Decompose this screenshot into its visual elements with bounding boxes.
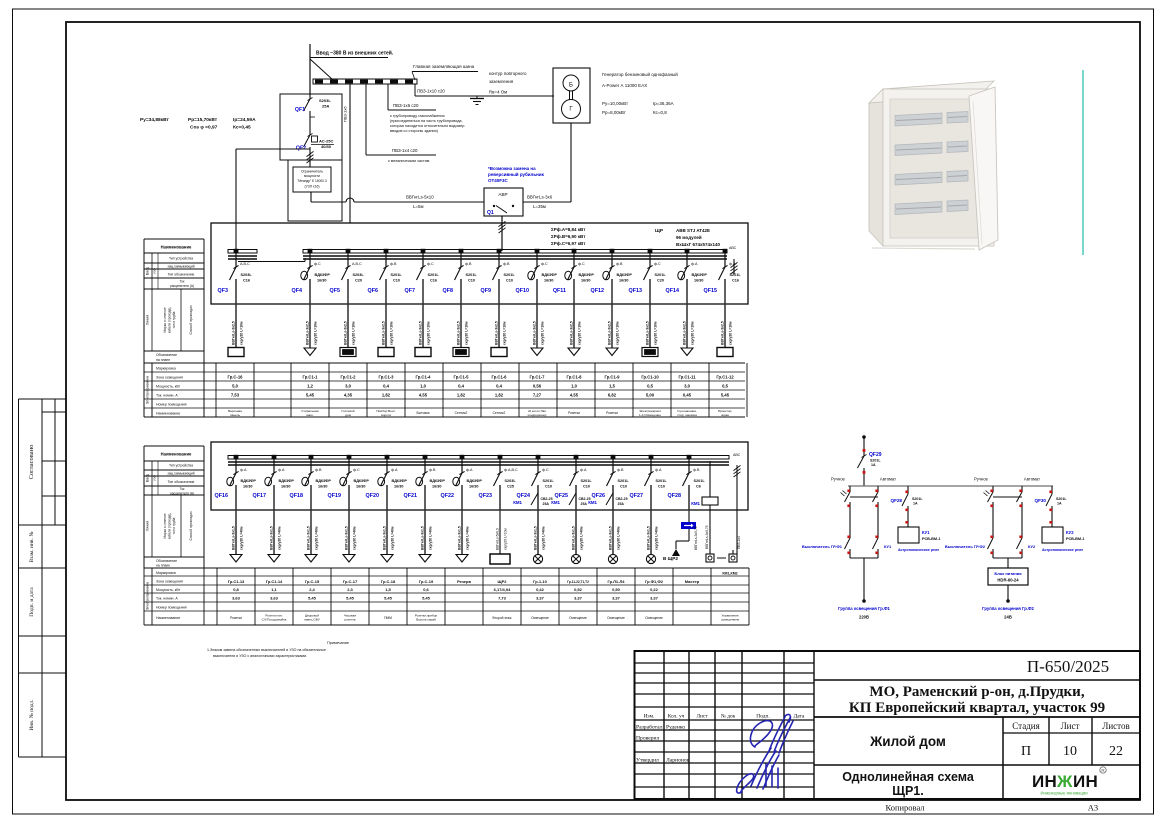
- svg-text:ф.А: ф.А: [278, 468, 285, 472]
- svg-text:ЩР1.: ЩР1.: [892, 784, 924, 798]
- svg-text:Выключатель ГР.Ф1: Выключатель ГР.Ф1: [802, 544, 843, 549]
- svg-text:Копировал: Копировал: [885, 803, 925, 813]
- breaker QF19: [328, 455, 370, 510]
- svg-text:кабеля (провода),: кабеля (провода),: [168, 307, 172, 334]
- svg-text:С16: С16: [732, 279, 739, 283]
- svg-text:QF25: QF25: [555, 493, 568, 499]
- svg-text:96 модулей: 96 модулей: [676, 234, 702, 240]
- svg-text:дом: дом: [345, 413, 351, 417]
- svg-text:Гр.С1-6: Гр.С1-6: [491, 375, 507, 380]
- relay branch QF30 КУ2: [1035, 486, 1085, 552]
- svg-text:Способ прокладки: Способ прокладки: [189, 511, 193, 540]
- svg-text:16/30: 16/30: [318, 485, 328, 489]
- svg-text:скр/у20 L=40м: скр/у20 L=40м: [391, 526, 395, 550]
- svg-text:Марка и сечение: Марка и сечение: [163, 307, 167, 332]
- wire: outgoing cable of QF6: [382, 304, 394, 348]
- svg-text:СВ2-25: СВ2-25: [616, 497, 628, 501]
- svg-text:Разработал: Разработал: [636, 724, 663, 731]
- svg-text:QF13: QF13: [629, 288, 642, 294]
- svg-text:5,45: 5,45: [306, 393, 315, 398]
- svg-text:скр/у20 L=10м: скр/у20 L=10м: [504, 528, 508, 550]
- svg-text:Освещение: Освещение: [569, 616, 587, 620]
- svg-text:КМ1: КМ1: [513, 500, 522, 505]
- svg-text:Группа освещения Гр.Ф1: Группа освещения Гр.Ф1: [838, 606, 890, 611]
- svg-text:Rв=4 Ом: Rв=4 Ом: [489, 90, 507, 95]
- svg-text:ВВГнгLs-3х2,5: ВВГнгLs-3х2,5: [419, 321, 423, 345]
- svg-text:ВВГнгLs-3х2,5: ВВГнгLs-3х2,5: [382, 321, 386, 345]
- svg-text:Лист: Лист: [1061, 721, 1080, 731]
- svg-text:Ввод ~380 В из внешних сетей.: Ввод ~380 В из внешних сетей.: [316, 50, 394, 57]
- wire: PE tap to mechanical parts: [365, 84, 367, 155]
- svg-text:3,0: 3,0: [345, 384, 351, 389]
- svg-text:QF8: QF8: [443, 288, 453, 294]
- svg-text:ф.В: ф.В: [503, 262, 510, 266]
- svg-text:к механическим частям: к механическим частям: [388, 159, 430, 163]
- svg-text:Мастер: Мастер: [685, 579, 700, 584]
- svg-text:QF22: QF22: [441, 493, 454, 499]
- svg-text:Гр.С1-2: Гр.С1-2: [340, 375, 356, 380]
- wire: outgoing cable of QF5: [344, 304, 356, 348]
- svg-text:5,00: 5,00: [646, 393, 655, 398]
- svg-text:Септик2: Септик2: [493, 411, 506, 415]
- wire: outgoing cable of QF21: [421, 510, 433, 554]
- panel ЩР1 box (upper): [211, 223, 748, 304]
- svg-text:С16: С16: [430, 279, 437, 283]
- svg-text:1,1: 1,1: [271, 587, 277, 592]
- svg-text:Мощность, кВт: Мощность, кВт: [156, 385, 181, 389]
- svg-text:Утвердил: Утвердил: [636, 758, 659, 764]
- svg-text:QF3: QF3: [218, 288, 228, 294]
- control bus: [848, 485, 1053, 487]
- svg-text:Маркировка: Маркировка: [156, 571, 176, 575]
- svg-text:навес,СФУ: навес,СФУ: [304, 618, 320, 622]
- manual/auto switch group: [945, 477, 1040, 559]
- table 2 grid: [144, 567, 749, 569]
- svg-text:МО, Раменский р-он, д.Прудки,: МО, Раменский р-он, д.Прудки,: [869, 684, 1084, 700]
- svg-text:ВВГнгLs-5х6,0: ВВГнгLs-5х6,0: [496, 528, 500, 550]
- breaker QF15: [704, 249, 742, 304]
- svg-text:ВВГнгLs-5х10: ВВГнгLs-5х10: [406, 195, 434, 200]
- svg-text:ВВГнгLs-3х1,5: ВВГнгLs-3х1,5: [345, 526, 349, 550]
- panel ЩР1 box (lower): [211, 442, 748, 510]
- svg-text:Тип обозначение: Тип обозначение: [168, 273, 195, 277]
- svg-text:HDR-60-24: HDR-60-24: [997, 578, 1019, 583]
- wire: outgoing cable of QF18: [307, 510, 319, 554]
- svg-text:ИН: ИН: [1073, 772, 1098, 791]
- wire: from bus end to terminal: [736, 472, 738, 554]
- svg-text:С10: С10: [620, 485, 627, 489]
- generator G (petrol): [553, 68, 590, 123]
- enclosure around power limiter: [288, 160, 342, 221]
- svg-text:Автомат: Автомат: [1024, 477, 1040, 482]
- svg-text:С10: С10: [468, 279, 475, 283]
- svg-text:16/30: 16/30: [317, 279, 327, 283]
- plan symbol of QF18: [305, 555, 317, 563]
- svg-text:Кол. уч: Кол. уч: [668, 714, 685, 720]
- svg-text:Гр.С-18: Гр.С-18: [381, 579, 396, 584]
- svg-text:S203L: S203L: [505, 479, 517, 483]
- wire: outgoing cable of QF11: [570, 304, 582, 348]
- svg-text:Гр.С-17: Гр.С-17: [343, 579, 358, 584]
- svg-text:заземления: заземления: [489, 79, 514, 84]
- svg-text:S203L: S203L: [241, 273, 253, 277]
- svg-text:QF4: QF4: [292, 288, 302, 294]
- svg-text:ВВГнгLs-3х2,5: ВВГнгLs-3х2,5: [533, 321, 537, 345]
- svg-text:Ворота сарай: Ворота сарай: [416, 618, 436, 622]
- svg-text:ВВГнгLs-3х2,5: ВВГнгLs-3х2,5: [721, 321, 725, 345]
- svg-text:Бытовка: Бытовка: [417, 411, 430, 415]
- svg-text:ВВГнгLs-3х2,5: ВВГнгLs-3х2,5: [570, 321, 574, 345]
- svg-text:QF15: QF15: [704, 288, 717, 294]
- svg-text:3,37: 3,37: [574, 596, 583, 601]
- svg-text:S201L: S201L: [912, 497, 923, 501]
- svg-text:ВД63ФР: ВД63ФР: [692, 273, 708, 277]
- svg-text:QF16: QF16: [215, 493, 228, 499]
- wire: outgoing cable of QF12: [608, 304, 620, 348]
- svg-text:S201L: S201L: [581, 479, 593, 483]
- wire: outgoing cable of QF15: [721, 304, 733, 348]
- svg-text:Руденко: Руденко: [666, 725, 685, 731]
- svg-text:QF28: QF28: [668, 493, 681, 499]
- svg-text:А3: А3: [1088, 803, 1098, 813]
- svg-text:КМ1: КМ1: [551, 500, 560, 505]
- svg-text:5,45: 5,45: [346, 596, 355, 601]
- svg-text:ВВГнгLs-3х1,5: ВВГнгLs-3х1,5: [534, 526, 538, 550]
- svg-text:Зона освещения: Зона освещения: [156, 376, 183, 380]
- svg-text:мощности: мощности: [304, 174, 320, 178]
- RCD QF2: [304, 135, 311, 147]
- svg-text:стир. машина: стир. машина: [677, 413, 697, 417]
- svg-text:кондиционер: кондиционер: [528, 413, 547, 417]
- svg-text:выключатели и УЗО с аналогичны: выключатели и УЗО с аналогичными характе…: [213, 654, 307, 658]
- table 1 grid: [144, 362, 745, 364]
- svg-text:QF12: QF12: [591, 288, 604, 294]
- svg-text:ф.С: ф.С: [314, 262, 321, 266]
- svg-text:ΣРф.С=6,97 кВт: ΣРф.С=6,97 кВт: [551, 240, 586, 246]
- svg-text:АВР: АВР: [498, 192, 507, 197]
- breaker QF22: [441, 455, 483, 510]
- svg-text:Гр.С1-12: Гр.С1-12: [716, 375, 734, 380]
- plan symbol of QF6: [378, 348, 394, 357]
- svg-text:Электроприемник: Электроприемник: [146, 375, 150, 404]
- breaker QF29: [863, 452, 865, 456]
- plan symbol of QF8: [453, 348, 469, 357]
- enclosure around QF1 QF2: [280, 94, 342, 160]
- svg-text:ВВГнгLs-3х1,5: ВВГнгLs-3х1,5: [647, 526, 651, 550]
- svg-text:УЗО: УЗО: [153, 474, 157, 481]
- wire: outgoing cable of QF9: [495, 304, 507, 348]
- svg-text:Гр.С1-1: Гр.С1-1: [302, 375, 318, 380]
- svg-text:КУ1: КУ1: [884, 544, 892, 549]
- svg-text:ВВГнгLs-3х6: ВВГнгLs-3х6: [527, 195, 553, 200]
- svg-text:ф.А: ф.А: [466, 468, 473, 472]
- plan symbol of QF24: [533, 554, 542, 563]
- svg-text:скр/у20 L=10м: скр/у20 L=10м: [240, 321, 244, 345]
- svg-text:QF14: QF14: [666, 288, 679, 294]
- svg-text:скр/у20 L=40м: скр/у20 L=40м: [240, 526, 244, 550]
- svg-text:0,5: 0,5: [722, 384, 728, 389]
- svg-text:ф.В: ф.В: [616, 262, 623, 266]
- svg-text:скр/у20 L=40м: скр/у20 L=40м: [580, 526, 584, 550]
- svg-text:Подп. и дата: Подп. и дата: [29, 587, 35, 617]
- breaker QF3: [218, 249, 253, 304]
- svg-text:0,42: 0,42: [536, 587, 545, 592]
- svg-text:Ру=34,88кВт: Ру=34,88кВт: [140, 117, 169, 123]
- svg-text:РСВ-ВМ-1: РСВ-ВМ-1: [1066, 537, 1084, 541]
- svg-text:ф.В: ф.В: [429, 468, 436, 472]
- svg-text:ОТ40F3С: ОТ40F3С: [488, 178, 509, 183]
- svg-text:освещением: освещением: [721, 618, 739, 622]
- svg-text:Листов: Листов: [1102, 721, 1129, 731]
- svg-text:Гр.С1-13: Гр.С1-13: [228, 579, 245, 584]
- svg-text:5,45: 5,45: [308, 596, 317, 601]
- svg-text:0,4: 0,4: [458, 384, 464, 389]
- svg-text:ПВЗ-1х6 с20: ПВЗ-1х6 с20: [393, 103, 419, 108]
- title block right part: [814, 679, 1140, 681]
- svg-text:Гр.С1-7: Гр.С1-7: [529, 375, 545, 380]
- svg-text:Тип обозначение: Тип обозначение: [168, 480, 195, 484]
- svg-text:0,4: 0,4: [496, 384, 502, 389]
- svg-text:(присоединяться на часть трубо: (присоединяться на часть трубопровода,: [390, 119, 463, 123]
- svg-text:4,35: 4,35: [344, 393, 353, 398]
- plan symbol of QF16: [230, 555, 242, 563]
- svg-text:ПВЗ-1х4: ПВЗ-1х4: [737, 536, 741, 549]
- control circuit feed node: [862, 435, 866, 439]
- svg-text:ВВГнгLs-3х2,5: ВВГнгLs-3х2,5: [646, 321, 650, 345]
- wire: outgoing cable of QF7: [419, 304, 431, 348]
- svg-text:0,52: 0,52: [574, 587, 583, 592]
- svg-text:С/У,Посудомойка: С/У,Посудомойка: [262, 618, 287, 622]
- svg-text:Обозначение: Обозначение: [156, 353, 177, 357]
- plan symbol of QF7: [415, 348, 431, 357]
- wire: outgoing cable of QF14: [683, 304, 695, 348]
- svg-text:0,56: 0,56: [533, 384, 542, 389]
- svg-text:С20: С20: [355, 279, 362, 283]
- svg-text:1,5: 1,5: [385, 587, 391, 592]
- svg-text:ф.А: ф.А: [691, 262, 698, 266]
- svg-text:Номер помещения: Номер помещения: [156, 403, 187, 407]
- svg-text:Гр.С1-11: Гр.С1-11: [678, 375, 696, 380]
- svg-text:скр/у20 L=10м: скр/у20 L=10м: [691, 321, 695, 345]
- svg-text:скр/у20 L=40м: скр/у20 L=40м: [278, 526, 282, 550]
- svg-text:3,37: 3,37: [536, 596, 545, 601]
- svg-text:АВС: АВС: [733, 453, 741, 457]
- manual/auto switch group: [802, 477, 896, 559]
- plan symbol of QF12: [606, 348, 618, 356]
- svg-text:скр/у20 L=40м: скр/у20 L=40м: [542, 526, 546, 550]
- svg-text:QF23: QF23: [479, 493, 492, 499]
- svg-text:Марка и сечение: Марка и сечение: [163, 513, 167, 538]
- sidebar cell grid: [19, 398, 67, 400]
- svg-text:КУ1: КУ1: [922, 530, 930, 535]
- svg-text:ф.В: ф.В: [315, 468, 322, 472]
- svg-text:ф.В: ф.В: [617, 468, 624, 472]
- svg-text:С16: С16: [243, 279, 250, 283]
- svg-text:Гр.С1-10: Гр.С1-10: [641, 375, 659, 380]
- svg-text:тип и труба: тип и труба: [172, 311, 176, 328]
- svg-text:ф.А: ф.А: [391, 468, 398, 472]
- svg-text:Тип устройства: Тип устройства: [169, 257, 193, 261]
- svg-text:0,6: 0,6: [423, 587, 429, 592]
- breaker QF4: [292, 249, 331, 304]
- breaker QF27: [630, 455, 668, 510]
- svg-text:10: 10: [1063, 744, 1077, 759]
- svg-text:маш.: маш.: [306, 413, 313, 417]
- svg-text:Iр=36,36А: Iр=36,36А: [653, 101, 674, 106]
- svg-text:ф.А: ф.А: [240, 468, 247, 472]
- contactor contact КМ1 at x=538: [513, 493, 552, 506]
- svg-text:16/30: 16/30: [694, 279, 704, 283]
- svg-text:ПММ: ПММ: [384, 616, 392, 620]
- svg-text:Зона освещения: Зона освещения: [156, 580, 183, 584]
- bus: main bus panel 1: [303, 250, 727, 254]
- svg-text:ф.А: ф.А: [655, 468, 662, 472]
- svg-text:Наименование: Наименование: [161, 452, 192, 457]
- svg-text:1,2: 1,2: [307, 384, 313, 389]
- svg-text:Ток: Ток: [180, 280, 185, 284]
- svg-text:Тип устройства: Тип устройства: [169, 464, 193, 468]
- svg-text:1-4,Освещение: 1-4,Освещение: [639, 413, 661, 417]
- teal marker line: [1082, 70, 1084, 255]
- svg-text:скр/у20 L=10м: скр/у20 L=10м: [352, 321, 356, 345]
- svg-text:QF27: QF27: [630, 493, 643, 499]
- svg-text:Гр.С1-4: Гр.С1-4: [415, 375, 431, 380]
- svg-text:S201L: S201L: [391, 273, 403, 277]
- svg-text:0,8: 0,8: [233, 587, 239, 592]
- wire: outgoing cable of QF16: [232, 510, 244, 554]
- svg-text:QF6: QF6: [368, 288, 378, 294]
- svg-text:25А: 25А: [618, 502, 625, 506]
- svg-text:ΣРф.А=8,84 кВт: ΣРф.А=8,84 кВт: [551, 226, 586, 232]
- breaker QF11: [553, 249, 595, 304]
- svg-text:Ввод: Ввод: [146, 266, 150, 275]
- svg-text:0,4: 0,4: [383, 384, 389, 389]
- contactor contact КМ1 at x=613: [588, 493, 627, 506]
- svg-text:Гр.С1-14: Гр.С1-14: [266, 579, 283, 584]
- QF28 outgoing with connector: [688, 510, 690, 522]
- svg-text:1,82: 1,82: [457, 393, 466, 398]
- svg-text:A-Power А 11000 ЕАХ: A-Power А 11000 ЕАХ: [602, 83, 647, 88]
- svg-text:ф.А: ф.А: [580, 468, 587, 472]
- svg-text:7,27: 7,27: [533, 393, 542, 398]
- bus: QF3 sub-bus: [228, 250, 257, 254]
- wire: generator to ATS: [570, 123, 572, 202]
- svg-text:ВВГнгLs-3х1,5: ВВГнгLs-3х1,5: [572, 526, 576, 550]
- svg-text:КМ1,КМ2: КМ1,КМ2: [722, 572, 737, 576]
- svg-text:Выключатель ГР.Ф2: Выключатель ГР.Ф2: [945, 544, 986, 549]
- svg-text:ПВЗ-1х4 с20: ПВЗ-1х4 с20: [392, 148, 418, 153]
- svg-text:С10: С10: [506, 279, 513, 283]
- svg-text:24В: 24В: [1004, 615, 1012, 620]
- svg-text:№ док: № док: [721, 714, 736, 720]
- svg-text:S201L: S201L: [466, 273, 478, 277]
- node: incoming 380V supply: [309, 44, 311, 95]
- svg-text:16/30: 16/30: [356, 485, 366, 489]
- svg-text:Инв. № подл.: Инв. № подл.: [29, 699, 35, 731]
- svg-text:Резерв: Резерв: [457, 579, 471, 584]
- svg-text:ВД63ФР: ВД63ФР: [315, 273, 331, 277]
- svg-text:П: П: [1021, 744, 1031, 759]
- svg-text:7,53: 7,53: [231, 393, 240, 398]
- breaker QF9: [481, 249, 516, 304]
- svg-text:QF26: QF26: [592, 493, 605, 499]
- breaker QF21: [404, 455, 446, 510]
- svg-text:QF1: QF1: [295, 107, 305, 113]
- svg-text:Ларионов: Ларионов: [666, 758, 690, 764]
- svg-text:Розетки: Розетки: [230, 616, 242, 620]
- svg-text:тип и труба: тип и труба: [172, 517, 176, 534]
- table 1 header column: [144, 238, 204, 240]
- svg-text:ВВГнгLs-3х1,5: ВВГнгLs-3х1,5: [609, 526, 613, 550]
- breaker QF13: [629, 249, 667, 304]
- breaker QF5: [330, 249, 365, 304]
- plan symbol of QF3: [228, 348, 244, 357]
- breaker QF10: [516, 249, 558, 304]
- wire: outgoing cable of QF13: [646, 304, 658, 348]
- svg-text:3,0: 3,0: [684, 384, 690, 389]
- svg-text:QF11: QF11: [553, 288, 566, 294]
- svg-text:Ограничитель: Ограничитель: [301, 170, 323, 174]
- svg-text:ф.В: ф.В: [693, 468, 700, 472]
- relay branch QF28 КУ1: [891, 486, 941, 552]
- svg-text:ф.А: ф.А: [729, 262, 736, 266]
- svg-text:АВС: АВС: [729, 246, 737, 250]
- svg-text:Изм.: Изм.: [644, 714, 655, 720]
- plan symbol of QF21: [419, 555, 431, 563]
- svg-text:1А: 1А: [913, 502, 918, 506]
- svg-text:Освещение: Освещение: [645, 616, 663, 620]
- svg-text:S203L: S203L: [319, 98, 331, 103]
- ground symbol: [470, 98, 484, 100]
- breaker QF7: [405, 249, 440, 304]
- svg-text:Ру=10,00кВт: Ру=10,00кВт: [602, 101, 628, 106]
- svg-text:ВД63ФР: ВД63ФР: [316, 479, 332, 483]
- svg-text:скр/у20 L=40м: скр/у20 L=40м: [353, 526, 357, 550]
- svg-text:Наименование: Наименование: [156, 412, 180, 416]
- svg-text:ЩР2: ЩР2: [498, 579, 508, 584]
- svg-text:Розетки: Розетки: [568, 411, 580, 415]
- breaker QF28: [668, 455, 706, 510]
- terminal box pair: [706, 554, 714, 562]
- svg-text:Ручное: Ручное: [974, 477, 989, 482]
- svg-text:Гр.С-19: Гр.С-19: [419, 579, 434, 584]
- svg-text:6,17/4,94: 6,17/4,94: [494, 587, 511, 592]
- svg-text:Cos φ =0,97: Cos φ =0,97: [190, 125, 218, 131]
- svg-text:QF18: QF18: [290, 493, 303, 499]
- svg-text:ф.С: ф.С: [578, 262, 585, 266]
- svg-text:S201L: S201L: [1056, 497, 1067, 501]
- svg-text:Розетки: Розетки: [606, 411, 618, 415]
- svg-text:С10: С10: [583, 485, 590, 489]
- arrow to ЩР2: [672, 549, 680, 556]
- wire: outgoing cable of QF8: [457, 304, 469, 348]
- svg-text:(УЗЛ х16): (УЗЛ х16): [305, 185, 320, 189]
- svg-text:панель: панель: [230, 413, 241, 417]
- svg-text:контур повторного: контур повторного: [489, 71, 527, 76]
- svg-text:к трубопроводу газоснабжения: к трубопроводу газоснабжения: [390, 114, 445, 118]
- svg-text:ВД63ФР: ВД63ФР: [542, 273, 558, 277]
- svg-text:ВД63ФР: ВД63ФР: [467, 479, 483, 483]
- svg-text:2,4: 2,4: [309, 587, 315, 592]
- bus: main bus panel 2: [228, 456, 729, 460]
- svg-text:Гр.С1-8: Гр.С1-8: [566, 375, 582, 380]
- wire: sub-bus link: [238, 261, 305, 263]
- svg-text:1,82: 1,82: [495, 393, 504, 398]
- svg-text:Обозначение: Обозначение: [156, 559, 177, 563]
- svg-text:Гр.11-22,Т1,Т2: Гр.11-22,Т1,Т2: [567, 580, 589, 584]
- svg-text:Маркировка: Маркировка: [156, 367, 176, 371]
- svg-text:0,5: 0,5: [647, 384, 653, 389]
